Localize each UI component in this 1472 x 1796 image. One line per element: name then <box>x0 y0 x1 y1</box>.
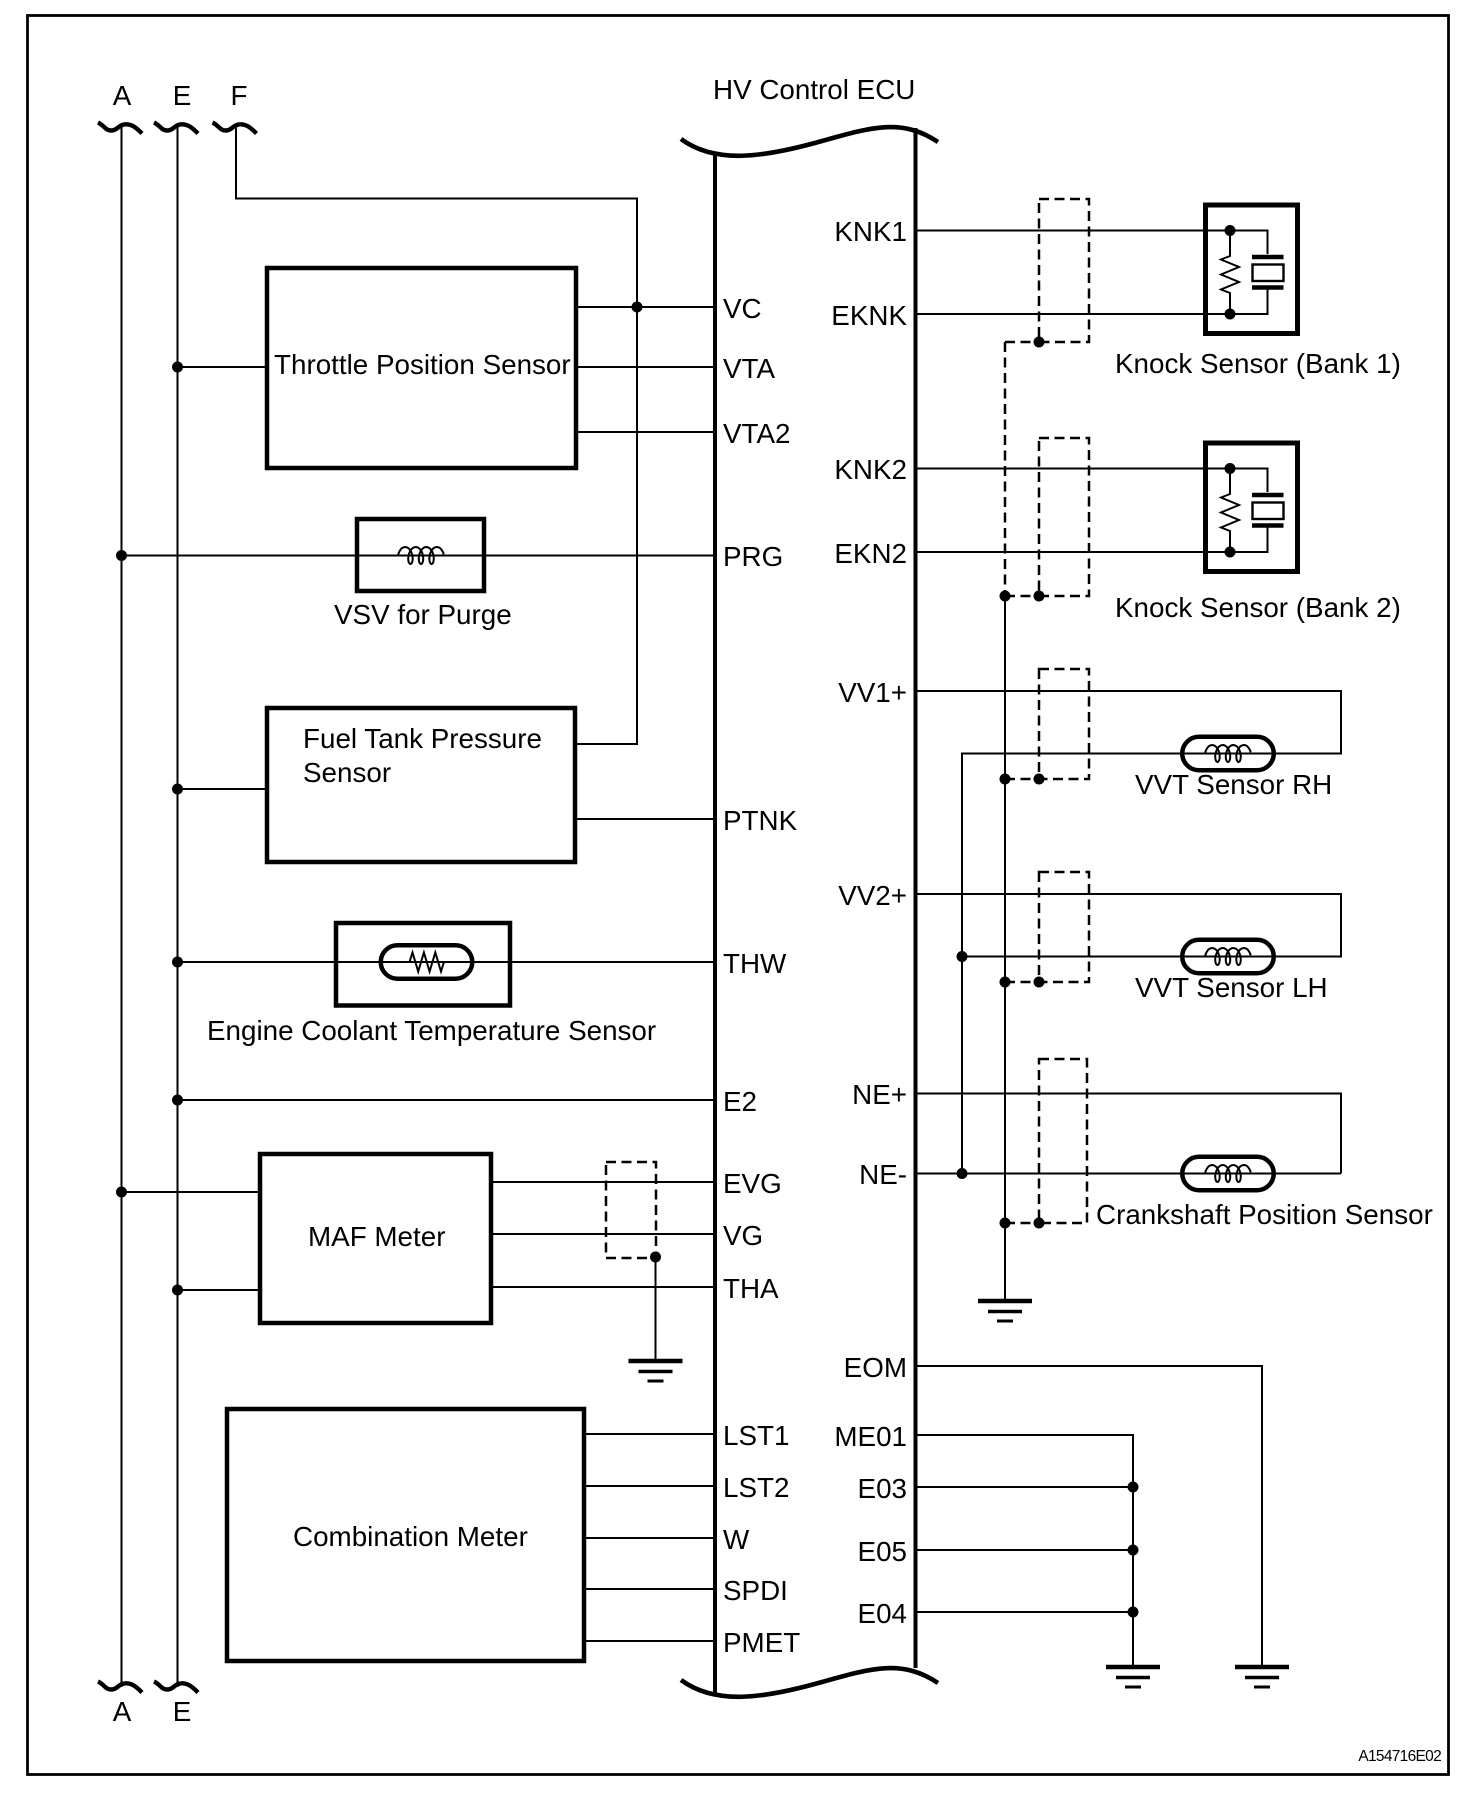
junction dot MAF shield <box>650 1252 661 1263</box>
HV Control ECU top break wave <box>681 127 938 156</box>
junction dot E04 <box>1128 1607 1139 1618</box>
svg-text:EOM: EOM <box>844 1352 907 1383</box>
VVT sensor LH coil oval <box>1182 940 1274 974</box>
wire E03 <box>917 1486 1133 1488</box>
wire VV1+ to VVT sensor RH <box>917 691 1341 1174</box>
wire KNK2 to knock sensor 2 <box>917 468 1230 470</box>
VVT LH shield dashed box <box>1039 872 1089 982</box>
svg-text:VV1+: VV1+ <box>838 677 907 708</box>
shield drain solid vertical <box>1004 596 1006 1301</box>
knock shield dashed box 2 <box>1039 438 1089 596</box>
shield drain dashed vertical <box>1004 342 1007 596</box>
junction dot E/THW <box>172 957 183 968</box>
svg-text:VTA2: VTA2 <box>723 418 790 449</box>
svg-text:VG: VG <box>723 1220 763 1251</box>
junction dot shield VVT RH left <box>1000 774 1011 785</box>
crankshaft sensor coil oval <box>1182 1157 1274 1191</box>
Knock Sensor (Bank 2) box <box>1206 443 1298 572</box>
svg-text:THW: THW <box>723 948 787 979</box>
Combination Meter box <box>227 1409 584 1661</box>
wire E to throttle sensor <box>178 366 268 368</box>
svg-text:HV Control ECU: HV Control ECU <box>713 74 915 105</box>
junction dot E/fuel <box>172 784 183 795</box>
wire EKNK to knock sensor 1 <box>917 313 1230 315</box>
junction dot shield crank left <box>1000 1218 1011 1229</box>
junction dot NE-/VVT return <box>957 1168 968 1179</box>
svg-text:VTA: VTA <box>723 353 775 384</box>
VSV for Purge box <box>357 519 484 591</box>
wire EVG pin <box>491 1181 713 1183</box>
junction dot VVT LH return <box>957 951 968 962</box>
svg-text:Combination Meter: Combination Meter <box>293 1521 528 1552</box>
svg-text:VSV for Purge: VSV for Purge <box>334 599 512 630</box>
wire E2 from bus E to ECU <box>178 1099 714 1101</box>
junction dot E/E2 <box>172 1095 183 1106</box>
junction dot A/PRG <box>116 550 127 561</box>
wire VG pin <box>491 1233 713 1235</box>
wire PTNK pin <box>575 818 713 820</box>
junction dot shield KNK2 right <box>1034 591 1045 602</box>
wire KNK1 to knock sensor 1 <box>917 230 1230 232</box>
svg-text:Knock Sensor (Bank 2): Knock Sensor (Bank 2) <box>1115 592 1401 623</box>
junction dot shield crank right <box>1034 1218 1045 1229</box>
wire E04 <box>917 1611 1133 1613</box>
wire A to MAF meter <box>122 1191 261 1193</box>
break symbol F top <box>213 123 257 134</box>
ground (sensor shields) <box>978 1301 1032 1321</box>
svg-text:A: A <box>113 80 132 111</box>
wire VTA pin <box>576 366 713 368</box>
wire ME01 to ground <box>917 1435 1133 1667</box>
svg-text:E05: E05 <box>858 1536 907 1567</box>
wire VTA2 pin <box>576 431 713 433</box>
wire THA pin <box>491 1286 713 1288</box>
break symbol A top <box>98 123 142 134</box>
wire bus A vertical <box>121 127 123 1687</box>
wire PRG from bus A to ECU <box>122 555 714 557</box>
svg-text:E: E <box>173 1696 192 1727</box>
wire VC pin <box>576 306 713 308</box>
wire VV2+ to VVT sensor LH <box>917 894 1341 957</box>
svg-text:SPDI: SPDI <box>723 1575 788 1606</box>
svg-text:THA: THA <box>723 1273 779 1304</box>
junction dot A/MAF <box>116 1187 127 1198</box>
knock piezo node bottom <box>1225 309 1236 320</box>
wire SPDI pin <box>584 1588 713 1590</box>
Knock Sensor (Bank 1) box <box>1206 205 1298 334</box>
wire bus E vertical <box>177 127 179 1687</box>
svg-text:PRG: PRG <box>723 541 783 572</box>
knock capacitor plate top <box>1252 255 1284 260</box>
junction dot E03 <box>1128 1482 1139 1493</box>
svg-text:E: E <box>173 80 192 111</box>
junction dot E/VTA <box>172 362 183 373</box>
wire E to fuel tank sensor <box>178 788 268 790</box>
svg-text:NE+: NE+ <box>852 1079 907 1110</box>
svg-text:Knock Sensor (Bank 1): Knock Sensor (Bank 1) <box>1115 348 1401 379</box>
svg-text:Throttle Position Sensor: Throttle Position Sensor <box>274 349 571 380</box>
HV Control ECU left wall <box>713 154 717 1693</box>
junction dot E05 <box>1128 1545 1139 1556</box>
wire PMET pin <box>584 1640 713 1642</box>
svg-text:VV2+: VV2+ <box>838 880 907 911</box>
HV Control ECU bottom break wave <box>681 1668 938 1697</box>
svg-text:ME01: ME01 <box>834 1421 907 1452</box>
svg-text:F: F <box>231 80 248 111</box>
Throttle Position Sensor box <box>267 268 576 468</box>
wire NE+ to crankshaft sensor <box>917 1094 1341 1174</box>
svg-text:MAF Meter: MAF Meter <box>308 1221 445 1252</box>
shield drain dashed segment (KNK2 row) <box>1005 595 1039 598</box>
shield drain dashed segment (VVT LH row) <box>1005 981 1039 984</box>
wire W pin <box>584 1537 713 1539</box>
wire THW from bus E to ECU <box>178 961 714 963</box>
svg-text:A: A <box>113 1696 132 1727</box>
ground (MAF shield) <box>629 1361 683 1381</box>
break symbol A bottom <box>98 1682 142 1693</box>
knock sensor 1 internals <box>1221 225 1284 320</box>
knock capacitor branch wires <box>1230 231 1268 315</box>
shield drain dashed segment (KNK1 row) <box>1005 341 1039 344</box>
svg-text:LST2: LST2 <box>723 1472 789 1503</box>
svg-text:NE-: NE- <box>859 1159 907 1190</box>
knock crystal rect <box>1253 265 1284 282</box>
VVT RH shield dashed box <box>1039 669 1089 779</box>
knock sensor 2 internals <box>1221 463 1284 558</box>
break symbol E top <box>154 123 198 134</box>
svg-text:VVT Sensor LH: VVT Sensor LH <box>1135 972 1328 1003</box>
svg-text:EVG: EVG <box>723 1168 782 1199</box>
ECT thermistor oval <box>381 945 473 979</box>
crank shield dashed box <box>1039 1059 1087 1223</box>
wire LST2 pin <box>584 1485 713 1487</box>
svg-text:EKN2: EKN2 <box>834 538 907 569</box>
MAF shield drain wire <box>655 1257 657 1361</box>
svg-text:EKNK: EKNK <box>831 300 907 331</box>
svg-text:LST1: LST1 <box>723 1420 789 1451</box>
shield drain dashed segment (crank row) <box>1005 1222 1039 1225</box>
ECT thermistor zigzag <box>410 953 445 972</box>
svg-text:E03: E03 <box>858 1473 907 1504</box>
svg-text:A154716E02: A154716E02 <box>1358 1748 1441 1765</box>
svg-text:W: W <box>723 1524 750 1555</box>
shield drain dashed segment (VVT RH row) <box>1005 778 1039 781</box>
ground (ME01/E03/E05/E04) <box>1106 1667 1160 1687</box>
svg-text:Sensor: Sensor <box>303 757 391 788</box>
knock shield dashed box 1 <box>1039 199 1089 342</box>
break symbol E bottom <box>154 1682 198 1693</box>
junction dot VC/F <box>632 302 643 313</box>
junction dot shield KNK1 <box>1034 337 1045 348</box>
knock piezo node top <box>1225 225 1236 236</box>
Engine Coolant Temperature Sensor box <box>336 923 510 1006</box>
ground (EOM) <box>1235 1667 1289 1687</box>
wire NE- to crankshaft sensor <box>917 1173 1341 1175</box>
svg-text:Engine Coolant Temperature Sen: Engine Coolant Temperature Sensor <box>207 1015 656 1046</box>
wire LST1 pin <box>584 1433 713 1435</box>
svg-text:PMET: PMET <box>723 1627 800 1658</box>
junction dot E/THA <box>172 1285 183 1296</box>
junction dot shield VVT LH left <box>1000 977 1011 988</box>
MAF shield dashed box <box>606 1162 656 1258</box>
svg-text:KNK1: KNK1 <box>834 216 907 247</box>
VSV solenoid coil <box>398 547 444 564</box>
junction dot shield KNK2 left <box>1000 591 1011 602</box>
knock internal resistor <box>1221 231 1239 315</box>
svg-text:VVT Sensor RH: VVT Sensor RH <box>1135 769 1332 800</box>
HV Control ECU right wall <box>914 128 918 1668</box>
Fuel Tank Pressure Sensor box <box>267 708 575 862</box>
svg-text:Crankshaft Position Sensor: Crankshaft Position Sensor <box>1096 1199 1433 1230</box>
svg-text:KNK2: KNK2 <box>834 454 907 485</box>
wire EOM to ground <box>917 1366 1262 1667</box>
junction dot shield VVT LH right <box>1034 977 1045 988</box>
svg-text:E2: E2 <box>723 1086 757 1117</box>
svg-text:Fuel Tank Pressure: Fuel Tank Pressure <box>303 723 542 754</box>
junction dot shield VVT RH right <box>1034 774 1045 785</box>
svg-text:VC: VC <box>723 293 762 324</box>
svg-text:PTNK: PTNK <box>723 805 798 836</box>
wire EKN2 to knock sensor 2 <box>917 551 1230 553</box>
MAF Meter box <box>260 1154 491 1323</box>
wire bus F vertical + route to VC node and fuel tank sensor <box>236 127 637 744</box>
knock capacitor plate bottom <box>1252 285 1284 290</box>
svg-text:E04: E04 <box>858 1598 907 1629</box>
wire E to MAF meter (THA side) <box>178 1289 261 1291</box>
wire E05 <box>917 1549 1133 1551</box>
VVT sensor RH coil oval <box>1182 737 1274 771</box>
